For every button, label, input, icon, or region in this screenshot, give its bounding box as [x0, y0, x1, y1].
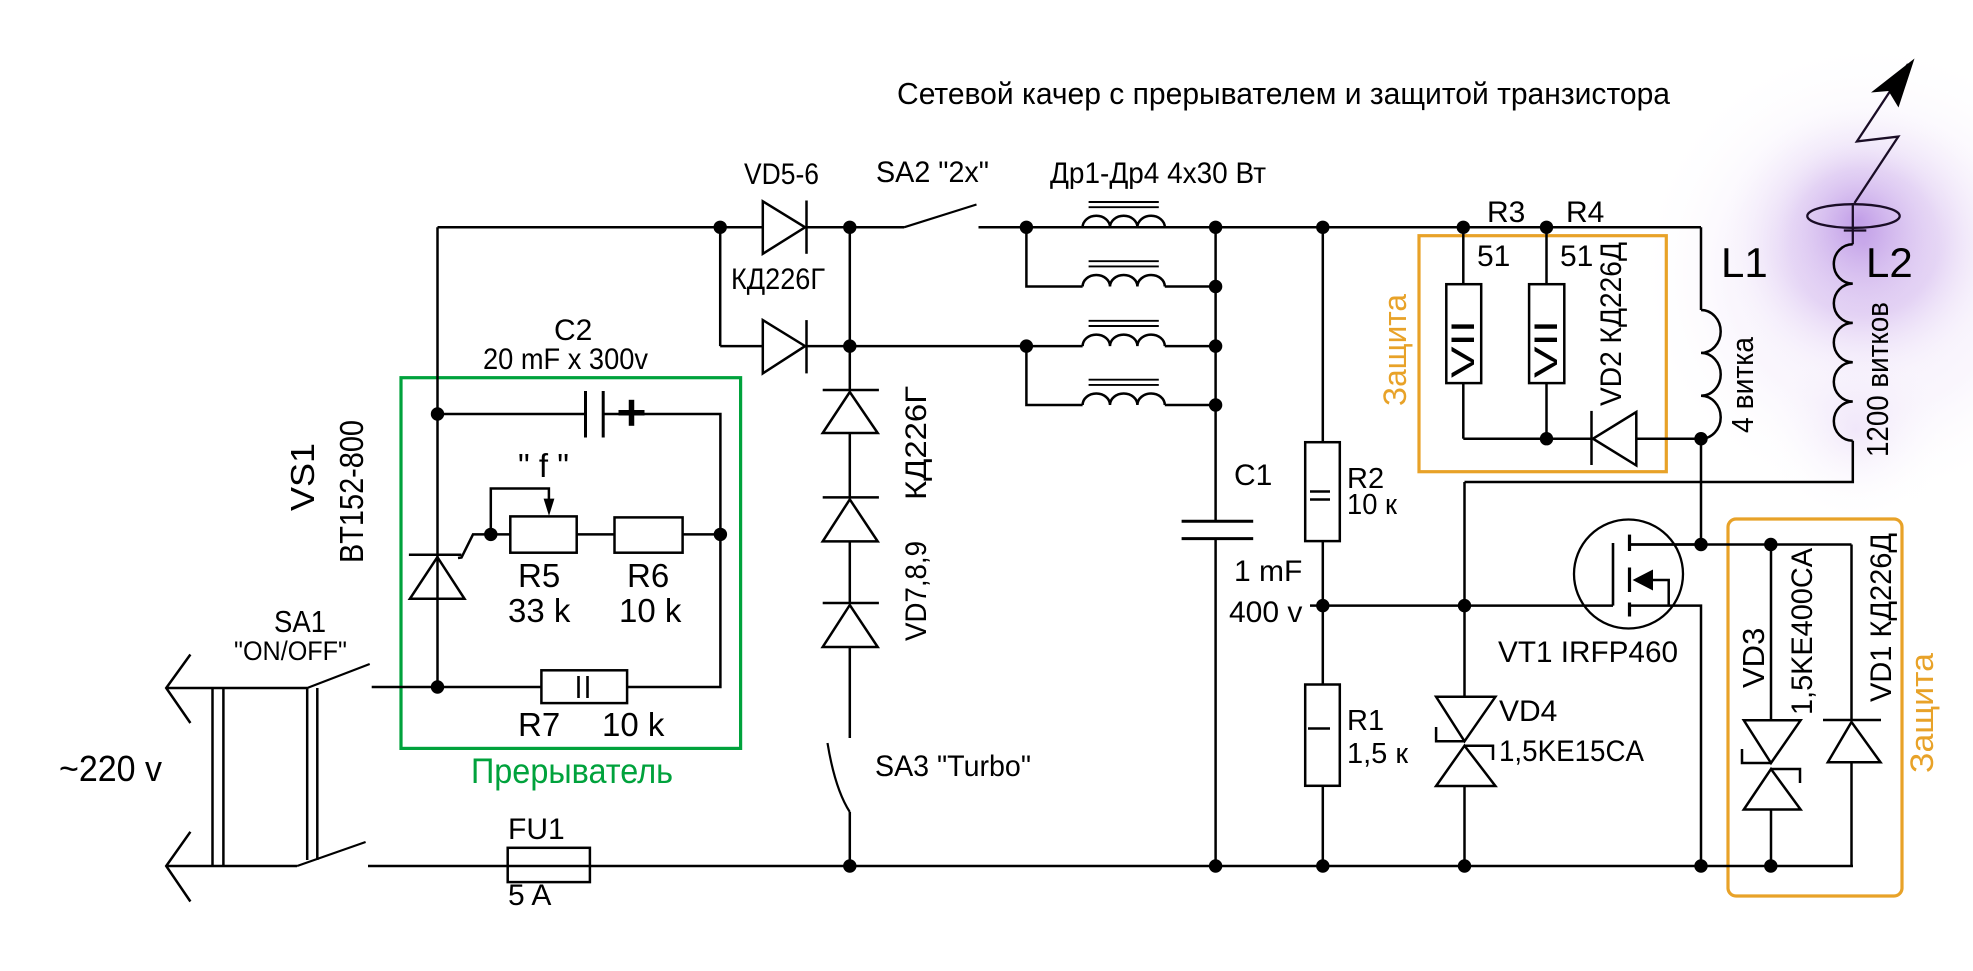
wire VD3 top lead	[1770, 545, 1773, 721]
purple corona glow around L2 spark	[1634, 37, 1973, 520]
wire choke row2 right lead	[1165, 285, 1216, 288]
junction dot gate node at R2 R1	[1316, 599, 1329, 612]
wire choke feed drop row1 to row2	[1026, 227, 1082, 286]
wire SA3 to bottom rail	[849, 812, 852, 866]
resistor R6	[615, 517, 683, 552]
choke Др3	[1083, 321, 1165, 346]
wire VD7 to VD8	[849, 433, 852, 497]
wire VD6 cathode to choke row 3	[807, 345, 1027, 348]
wire C1 bottom to ground rail	[1214, 539, 1217, 866]
svg-text:SA1: SA1	[274, 604, 326, 639]
junction dot R6 right node	[714, 528, 727, 541]
diode VD9	[823, 603, 879, 647]
wire choke row3 left lead	[1026, 345, 1082, 348]
svg-text:4 витка: 4 витка	[1725, 336, 1760, 433]
wire VD1 bottom lead	[1850, 762, 1853, 866]
wire C2 right plate to R6 node	[604, 414, 721, 534]
junction dot bottom rail VT1 source	[1694, 859, 1707, 872]
svg-text:КД226Г: КД226Г	[900, 386, 933, 500]
choke Др2	[1083, 261, 1165, 286]
svg-text:VD4: VD4	[1499, 695, 1557, 728]
resistor R1	[1305, 685, 1340, 786]
junction dot VD6 cathode	[843, 339, 856, 352]
svg-text:1,5KE400CA: 1,5KE400CA	[1786, 548, 1819, 715]
svg-text:VT1 IRFP460: VT1 IRFP460	[1498, 636, 1678, 669]
inductor L2 1200 turns with topload and spark	[1807, 203, 1899, 441]
wire choke row1 left lead	[1026, 226, 1082, 229]
junction dot top rail at R2 feed	[1316, 221, 1329, 234]
wire R5 wiper tie	[491, 489, 549, 535]
wire R2 bottom to gate node	[1322, 541, 1325, 606]
svg-text:10 к: 10 к	[1347, 489, 1397, 521]
junction dot VS1 cathode node	[431, 680, 444, 693]
svg-text:VD3: VD3	[1736, 628, 1771, 688]
wire top rail SA2 right contact to L1 corner	[979, 226, 1702, 229]
junction dot gate node at VD4	[1458, 599, 1471, 612]
diode VD6	[763, 320, 807, 373]
potentiometer R5 (rheostat)	[510, 499, 576, 553]
wire R7 left to VS1 cathode node	[438, 686, 542, 689]
svg-text:51: 51	[1560, 240, 1593, 273]
diode VD2	[1592, 411, 1637, 466]
resistor R4	[1529, 227, 1564, 438]
wire gate row stub	[1310, 604, 1323, 607]
capacitor C2	[586, 391, 645, 438]
diode VD8	[823, 497, 879, 541]
wire VD2 anode to L1 bottom node	[1636, 437, 1701, 440]
junction dot bottom rail C1	[1209, 859, 1222, 872]
inductor L1 4 turns	[1701, 310, 1721, 439]
svg-text:Защита: Защита	[1904, 653, 1940, 773]
wire R6 right node down to R7 right	[627, 534, 720, 687]
junction dot choke row4 right	[1209, 398, 1222, 411]
wire VD5 to VD6 vertical feed	[719, 227, 722, 346]
wire top rail VD5 cathode to SA2 left contact	[807, 226, 905, 229]
svg-text:VII: VII	[1445, 320, 1481, 378]
TVS diode VD4	[1436, 697, 1495, 786]
wire gate row R2/R1 node to VT1 gate	[1323, 604, 1613, 607]
TVS diode VD3	[1742, 720, 1801, 809]
svg-text:R5: R5	[518, 557, 560, 594]
wire VD8 to VD9	[849, 541, 852, 603]
svg-text:33 k: 33 k	[508, 592, 571, 629]
wire VT1 drain row to VD1 top	[1630, 543, 1852, 546]
svg-text:VD2 КД226Д: VD2 КД226Д	[1595, 242, 1628, 406]
transistor VT1 IRFP460 MOSFET	[1574, 520, 1701, 629]
wire VD1 top lead	[1850, 545, 1853, 721]
svg-text:1 mF: 1 mF	[1234, 555, 1302, 588]
junction dot top rail at R4	[1540, 221, 1553, 234]
wire R5 to R6	[577, 533, 615, 536]
wire L1 top lead from rail corner	[1700, 227, 1703, 310]
junction dot choke row1 left	[1020, 221, 1033, 234]
junction dot bottom rail VD4	[1458, 859, 1471, 872]
svg-text:VD1 КД226Д: VD1 КД226Д	[1865, 533, 1898, 702]
junction dot choke row3 right	[1209, 339, 1222, 352]
junction dot choke row2 right	[1209, 280, 1222, 293]
junction dot top rail at R3	[1457, 221, 1470, 234]
junction dot R5 left gate node	[484, 528, 497, 541]
svg-text:VS1: VS1	[284, 443, 321, 511]
junction dot bottom rail SA3	[843, 859, 856, 872]
svg-text:~220 v: ~220 v	[59, 748, 162, 789]
svg-text:R6: R6	[627, 557, 669, 594]
wire VT1 source to bottom rail	[1630, 606, 1702, 866]
wire choke row3 right lead	[1165, 345, 1216, 348]
green box Прерыватель outline	[401, 378, 741, 749]
wire choke row4 right lead	[1165, 404, 1216, 407]
wire C2 left plate lead	[438, 413, 586, 416]
wire VD9 to SA3 contact	[849, 647, 852, 738]
junction dot R4 bottom node	[1540, 432, 1553, 445]
wire bottom rail	[368, 865, 1853, 868]
junction dot VD3 top node	[1764, 538, 1777, 551]
choke Др4	[1083, 380, 1165, 405]
svg-text:10 k: 10 k	[602, 706, 665, 743]
orange box Защита (top, R3 R4 VD2)	[1419, 236, 1666, 472]
junction dot C2 left node	[431, 407, 444, 420]
svg-text:VD5-6: VD5-6	[744, 158, 819, 191]
wire top rail from left corner to VD5 anode	[438, 226, 763, 229]
wire R6 right lead	[683, 533, 721, 536]
svg-text:" f ": " f "	[518, 447, 569, 484]
wire R1 bottom lead	[1322, 786, 1325, 866]
svg-text:SA3 "Turbo": SA3 "Turbo"	[875, 750, 1031, 783]
junction dot top rail at VD5 anode	[714, 221, 727, 234]
svg-text:SA2 "2x": SA2 "2x"	[876, 156, 989, 189]
wire left vertical drop (top rail to C2 node and VS1)	[436, 227, 439, 687]
svg-text:КД226Г: КД226Г	[731, 263, 825, 296]
junction dot top rail at VD5 cathode	[843, 221, 856, 234]
wire R1 top lead	[1322, 606, 1325, 685]
svg-text:L2: L2	[1866, 239, 1913, 286]
wire VD4 top lead from L2 feedback corner	[1463, 482, 1466, 697]
switch SA3 blade	[828, 743, 850, 812]
orange box Защита (bottom, VD3 VD1)	[1728, 519, 1902, 896]
junction dot bottom rail VD3	[1764, 859, 1777, 872]
wire SA1 top right contact to interrupter	[372, 686, 438, 689]
svg-text:Сетевой качер с прерывателем и: Сетевой качер с прерывателем и защитой т…	[897, 76, 1671, 111]
junction dot L1 bottom VD2 node	[1694, 432, 1707, 445]
svg-text:20 mF x 300v: 20 mF x 300v	[483, 343, 648, 376]
wire L2 feedback row to gate node	[1465, 441, 1853, 482]
thyristor VS1	[409, 555, 465, 599]
wire VS1 gate	[458, 534, 511, 558]
svg-text:Защита: Защита	[1377, 294, 1413, 406]
wire R3 bottom row to VD2	[1463, 437, 1591, 440]
junction dot choke row1 right	[1209, 221, 1222, 234]
resistor R2	[1305, 442, 1340, 541]
choke Др1	[1083, 202, 1165, 227]
svg-text:C1: C1	[1234, 459, 1272, 492]
svg-text:R1: R1	[1347, 705, 1384, 737]
resistor R3	[1446, 227, 1481, 438]
diode VD5	[763, 201, 807, 254]
wire VD6 anode lead	[720, 345, 763, 348]
fuse FU1	[508, 848, 590, 882]
junction dot VT1 drain node	[1694, 538, 1707, 551]
diode VD1	[1823, 720, 1881, 762]
junction dot choke row3 left	[1020, 339, 1033, 352]
wire R2 top feed from top rail	[1322, 227, 1325, 442]
capacitor C1	[1182, 521, 1254, 538]
svg-text:BT152-800: BT152-800	[333, 420, 370, 563]
svg-text:1,5KE15CA: 1,5KE15CA	[1499, 735, 1644, 768]
wire choke output bus down to C1	[1214, 227, 1217, 521]
svg-text:5 A: 5 A	[508, 879, 551, 912]
spark lightning arrow	[1855, 59, 1915, 204]
svg-text:"ON/OFF": "ON/OFF"	[234, 636, 347, 666]
wire choke row1 right lead	[1165, 226, 1216, 229]
wire VD5-VD9 vertical bus at x850	[849, 227, 852, 390]
svg-text:51: 51	[1477, 240, 1510, 273]
wire choke feed drop row3 to row4	[1026, 346, 1082, 405]
svg-text:1,5 к: 1,5 к	[1347, 738, 1408, 770]
junction dot bottom rail R1	[1316, 859, 1329, 872]
svg-text:Прерыватель: Прерыватель	[471, 752, 673, 791]
wire L1 bottom to VT1 drain node	[1700, 439, 1703, 545]
svg-text:R7: R7	[518, 706, 560, 743]
svg-text:Др1-Др4 4x30 Вт: Др1-Др4 4x30 Вт	[1050, 157, 1266, 190]
svg-text:1200 витков: 1200 витков	[1860, 302, 1895, 457]
wire VD4 bottom lead	[1463, 786, 1466, 866]
diode VD7	[823, 390, 879, 433]
svg-text:VD7,8,9: VD7,8,9	[900, 541, 933, 641]
svg-text:10 k: 10 k	[619, 592, 682, 629]
svg-text:VII: VII	[1528, 320, 1564, 378]
svg-text:FU1: FU1	[508, 813, 565, 846]
svg-text:L1: L1	[1721, 239, 1768, 286]
svg-text:R3: R3	[1487, 196, 1525, 229]
resistor R7	[541, 670, 627, 703]
svg-text:400 v: 400 v	[1229, 596, 1302, 629]
svg-text:R4: R4	[1566, 196, 1604, 229]
switch SA2	[904, 205, 977, 228]
wire VD3 bottom lead	[1770, 810, 1773, 867]
switch SA1 double pole with plug arrows	[166, 655, 370, 902]
